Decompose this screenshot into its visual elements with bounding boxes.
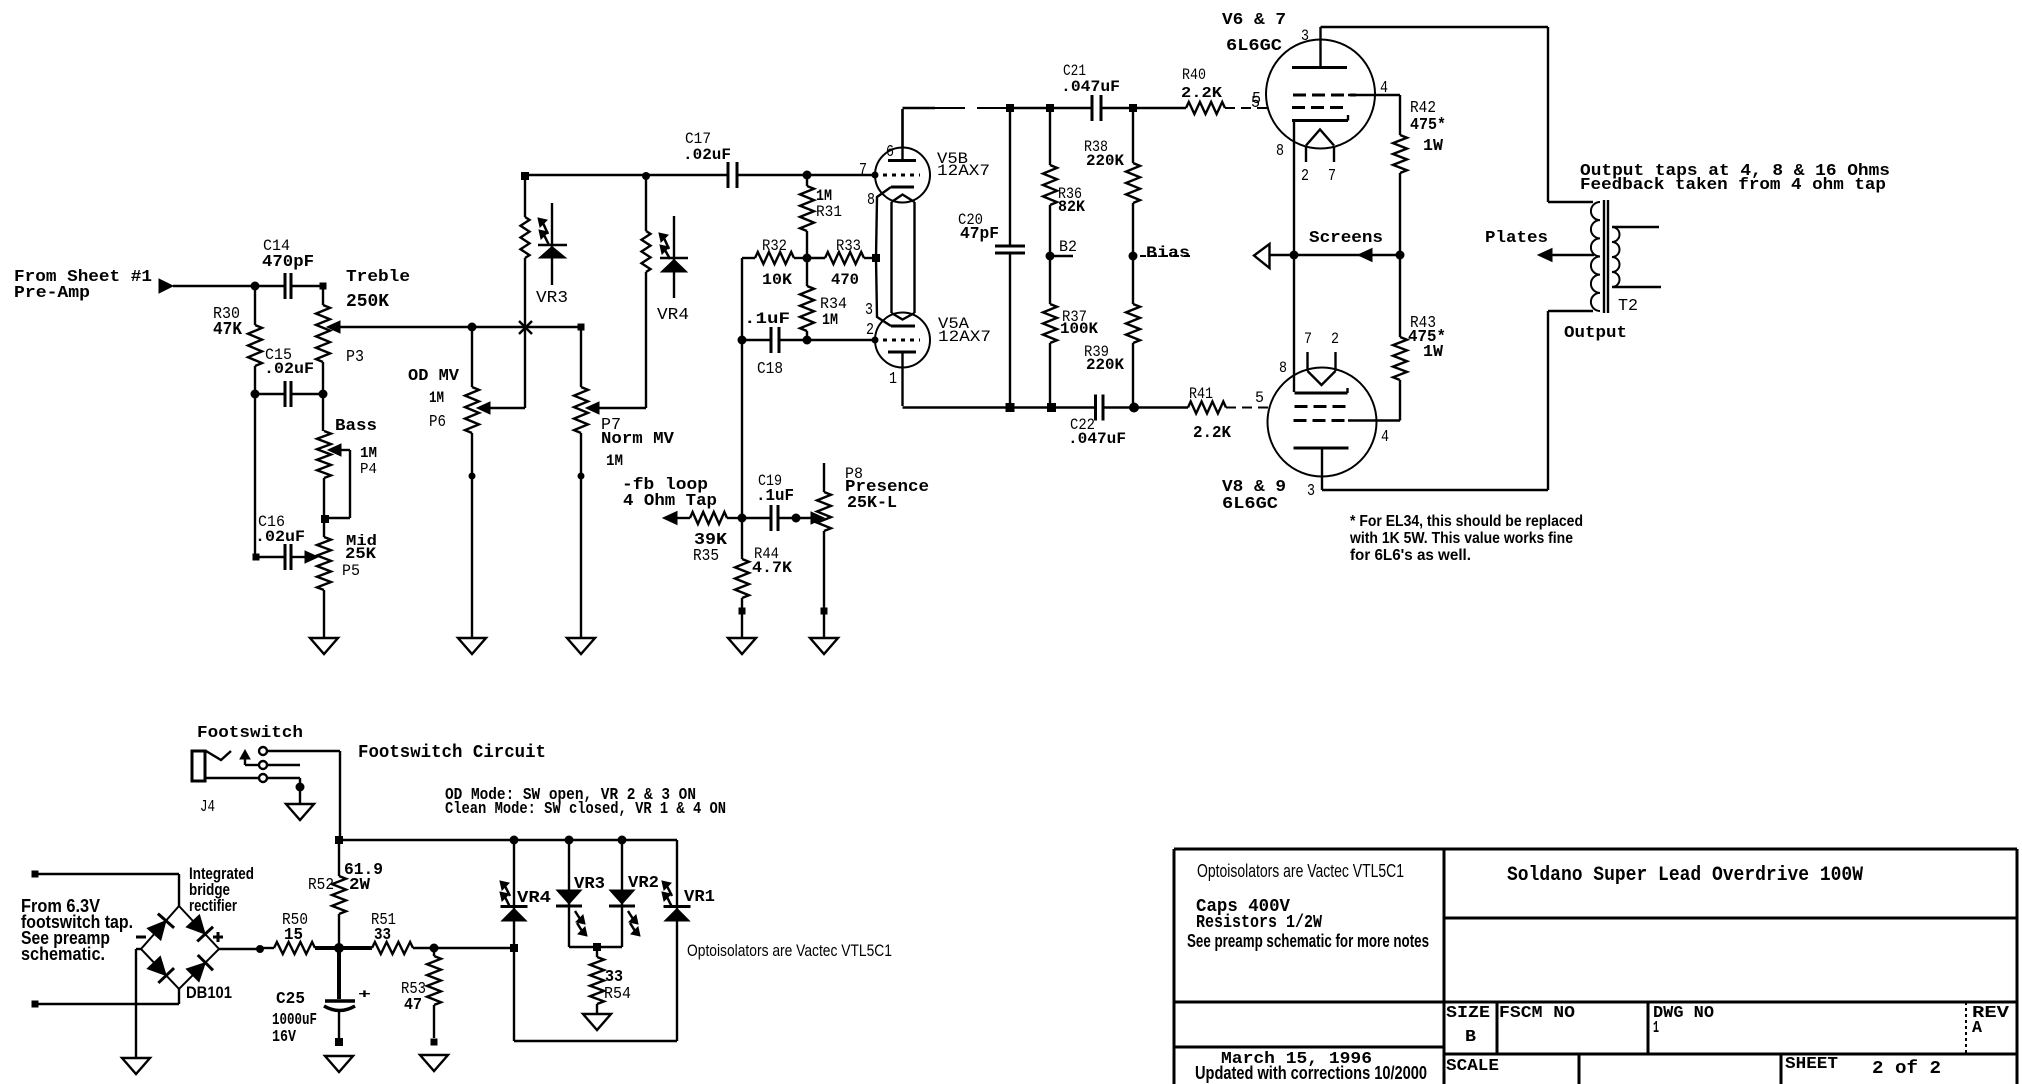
wire VR3 to P6 wiper	[490, 327, 525, 408]
wire C19 to P8 wiper	[778, 517, 811, 519]
svg-text:FSCM NO: FSCM NO	[1499, 1004, 1575, 1023]
svg-text:Clean Mode: SW closed, VR 1 &: Clean Mode: SW closed, VR 1 & 4 ON	[445, 800, 726, 819]
node C20 top	[1006, 104, 1014, 112]
capacitor C16	[255, 513, 305, 570]
svg-text:7: 7	[1328, 167, 1336, 186]
svg-text:VR4: VR4	[517, 889, 551, 908]
svg-text:220K: 220K	[1086, 356, 1124, 374]
resistor R31	[800, 175, 842, 258]
svg-text:R32: R32	[762, 237, 787, 255]
size label	[1446, 1004, 1490, 1047]
node R33/V5 cathodes	[872, 254, 880, 262]
svg-text:T2: T2	[1618, 297, 1638, 316]
cathode link wire	[1293, 121, 1295, 392]
svg-text:25K: 25K	[345, 545, 376, 563]
node P6 top	[468, 323, 477, 332]
svg-text:1M: 1M	[606, 452, 623, 470]
svg-text:4.7K: 4.7K	[752, 559, 792, 577]
wire VR3 to C17	[524, 174, 728, 176]
svg-text:1M: 1M	[822, 311, 838, 329]
wire V5A plate bottom	[903, 406, 1011, 408]
V6 pin labels	[1252, 27, 1388, 186]
bridge diode D2	[186, 915, 213, 942]
VR4 light arrows	[659, 233, 670, 259]
svg-text:OD MV: OD MV	[408, 367, 460, 386]
wire R30 node down to C16	[254, 394, 256, 557]
jack middle wire	[267, 764, 300, 766]
svg-text:2.2K: 2.2K	[1193, 424, 1232, 443]
transformer T2 secondary	[1612, 227, 1620, 287]
wire R36 junction	[1010, 107, 1092, 109]
node fb/R44/C19	[738, 514, 747, 523]
svg-text:Resistors 1/2W: Resistors 1/2W	[1196, 913, 1322, 933]
node C20 bottom	[1006, 403, 1015, 412]
node R31/R32/R33	[803, 254, 812, 263]
pentode V8 & 9	[1222, 352, 1377, 514]
svg-text:12AX7: 12AX7	[937, 162, 990, 180]
svg-text:VR1: VR1	[684, 888, 715, 907]
svg-text:47K: 47K	[213, 320, 242, 340]
wire P3 wiper to P6/P7	[340, 326, 581, 328]
node B2	[1046, 238, 1078, 261]
wire to C18	[742, 339, 771, 341]
svg-text:1W: 1W	[1423, 137, 1444, 156]
node C18 left	[738, 336, 747, 345]
triode V5B	[875, 109, 990, 258]
svg-text:VR2: VR2	[628, 874, 659, 893]
fb arrow	[663, 512, 690, 525]
svg-text:+: +	[358, 987, 371, 1002]
svg-text:.02uF: .02uF	[264, 360, 314, 378]
svg-text:220K: 220K	[1086, 152, 1124, 170]
resistor R40	[1181, 66, 1225, 114]
svg-text:33: 33	[374, 926, 391, 945]
optoisolator VR2 LED	[609, 840, 659, 947]
input arrow	[159, 279, 173, 293]
plates arrow	[1485, 229, 1594, 262]
top rail to transformer	[1321, 27, 1594, 202]
svg-text:P3: P3	[346, 348, 364, 367]
title block row4 line	[1174, 1047, 2017, 1054]
svg-text:1M: 1M	[360, 445, 377, 462]
svg-text:3: 3	[1301, 27, 1309, 45]
svg-text:SHEET: SHEET	[1785, 1055, 1838, 1074]
jack top wire	[267, 750, 340, 752]
wire to C15	[255, 393, 285, 395]
node screens line	[1290, 251, 1299, 260]
svg-text:R33: R33	[836, 237, 861, 255]
resistor R43	[1393, 255, 1446, 421]
jack tip spring	[206, 751, 231, 760]
potentiometer P7 Norm MV	[574, 327, 675, 638]
resistor R34	[800, 258, 847, 340]
node P7 mid dot	[578, 473, 585, 480]
wire C16 to P5 wiper	[291, 556, 306, 558]
resistor R38	[1084, 108, 1140, 256]
svg-text:R41: R41	[1189, 385, 1213, 403]
svg-text:15: 15	[284, 926, 303, 945]
node C25 bottom	[335, 1038, 343, 1046]
capacitor C15	[264, 346, 314, 407]
resistor R50	[260, 911, 339, 954]
pin 5 label V8	[1255, 389, 1264, 407]
node rail top	[335, 836, 343, 844]
capacitor C19	[756, 472, 794, 531]
resistor R39	[1084, 256, 1140, 408]
ground R44	[728, 638, 756, 654]
node A (input/R30/C14)	[251, 282, 260, 291]
title block line under title	[1444, 917, 2017, 920]
svg-text:47pF: 47pF	[960, 225, 999, 244]
svg-text:3: 3	[1307, 482, 1315, 501]
svg-text:See preamp schematic for more: See preamp schematic for more notes	[1187, 931, 1429, 951]
svg-text:5: 5	[1255, 389, 1264, 407]
resistor R41	[1188, 385, 1232, 443]
wire R41 to V8 grid	[1226, 407, 1269, 409]
title note caps	[1196, 897, 1290, 917]
V8 pin labels	[1279, 330, 1389, 501]
svg-text:5: 5	[1252, 90, 1261, 109]
potentiometer P6 OD MV	[408, 327, 479, 638]
bridge + output wire	[219, 948, 260, 950]
resistor R33	[807, 237, 876, 289]
transformer T2 core	[1604, 200, 1608, 313]
potentiometer P5 Mid	[317, 519, 377, 638]
capacitor C25	[272, 948, 371, 1047]
optoisolator VR1 LED	[664, 840, 716, 1041]
node VR4 top	[510, 836, 519, 845]
svg-text:Optoisolators are Vactec VTL5C: Optoisolators are Vactec VTL5C1	[1197, 861, 1404, 881]
svg-text:12AX7: 12AX7	[938, 328, 991, 346]
node R50 left	[256, 945, 264, 953]
svg-text:Bass: Bass	[335, 417, 377, 436]
svg-text:6: 6	[886, 143, 894, 162]
P5 wiper arrow	[305, 551, 318, 563]
svg-text:470: 470	[831, 271, 859, 289]
svg-text:VR4: VR4	[657, 306, 689, 325]
svg-text:10K: 10K	[762, 271, 792, 289]
wire C14 to P3	[291, 285, 323, 287]
svg-text:16V: 16V	[272, 1028, 297, 1047]
node R30/C15	[251, 390, 260, 399]
AC input top terminal	[32, 871, 39, 878]
P6 wiper arrow	[477, 402, 490, 414]
svg-text:1M: 1M	[429, 389, 444, 407]
svg-text:J4: J4	[200, 798, 215, 817]
node VR2 top	[618, 836, 627, 845]
ground P5	[310, 638, 338, 654]
P8 wiper arrow	[811, 512, 824, 524]
ground R54	[583, 1014, 611, 1030]
sheet label	[1785, 1055, 1941, 1079]
wire VR4 to P7 wiper	[599, 298, 646, 408]
jack J4 body	[192, 751, 215, 817]
potentiometer P3 Treble	[316, 268, 410, 394]
footswitch label	[197, 724, 303, 743]
svg-text:VR3: VR3	[574, 875, 605, 894]
capacitor C14	[262, 237, 314, 299]
P4 wiper loop wire	[325, 450, 350, 518]
P7 wiper arrow	[586, 402, 599, 414]
node R53 bottom	[431, 1039, 438, 1046]
svg-text:2W: 2W	[349, 876, 371, 895]
V8 screen wire pin4	[1348, 419, 1400, 421]
svg-text:R35: R35	[693, 547, 719, 566]
wire VR3-VR2 bottoms	[569, 946, 622, 948]
svg-text:6L6GC: 6L6GC	[1226, 37, 1282, 56]
wire node to C14	[255, 285, 285, 287]
svg-text:1: 1	[889, 370, 897, 389]
P3 wiper arrow	[327, 321, 340, 333]
dwg label	[1653, 1004, 1714, 1038]
svg-text:8: 8	[867, 191, 875, 210]
T2 labels	[1564, 297, 1638, 343]
VR1 light arrows fs	[662, 881, 672, 907]
svg-text:SIZE: SIZE	[1446, 1004, 1490, 1023]
date label	[1221, 1050, 1372, 1069]
node R53 top	[430, 944, 439, 953]
node C14/P3	[320, 283, 327, 290]
title note optoisolators	[1197, 861, 1404, 881]
node R36 top	[1046, 104, 1054, 112]
title block main horizontal	[1174, 1001, 2017, 1004]
svg-text:Feedback taken from 4 ohm tap: Feedback taken from 4 ohm tap	[1580, 176, 1886, 195]
svg-text:250K: 250K	[346, 292, 389, 312]
jack switch arrow	[240, 750, 259, 765]
V6 screen wire pin4	[1348, 94, 1400, 96]
wire input to C14	[173, 285, 255, 287]
node Bias	[1129, 244, 1193, 262]
svg-text:100K: 100K	[1060, 320, 1098, 338]
svg-text:47: 47	[404, 996, 422, 1015]
svg-text:.047uF: .047uF	[1061, 78, 1120, 96]
node V5A grid	[872, 337, 879, 344]
capacitor C17	[683, 130, 737, 188]
optoisolator VR3 LDR	[521, 172, 569, 327]
node screens/R42/R43	[1396, 251, 1405, 260]
node P8 bottom dot	[821, 608, 828, 615]
bottom rail to transformer	[1322, 311, 1593, 490]
svg-text:Norm MV: Norm MV	[601, 430, 675, 449]
svg-text:2 of 2: 2 of 2	[1872, 1059, 1941, 1079]
resistor R35	[690, 512, 742, 566]
optoisolator VR3 LED	[556, 840, 605, 947]
svg-text:7: 7	[859, 161, 867, 180]
svg-text:B2: B2	[1059, 238, 1077, 256]
svg-text:B: B	[1465, 1028, 1476, 1047]
svg-text:1: 1	[1653, 1019, 1659, 1038]
VR1 return wire	[514, 948, 677, 1041]
ground P6	[458, 638, 486, 654]
node J4 sleeve	[296, 783, 305, 792]
svg-text:4 Ohm Tap: 4 Ohm Tap	[623, 492, 717, 511]
optoisolator VR4 LED	[501, 840, 552, 948]
node main supply	[334, 943, 344, 953]
svg-text:Optoisolators are Vactec VTL5C: Optoisolators are Vactec VTL5C1	[687, 941, 892, 960]
resistor R30	[213, 286, 262, 394]
wire R40 to V6 grid	[1225, 107, 1268, 109]
updated label	[1195, 1063, 1427, 1083]
V5A pin labels	[865, 301, 897, 389]
svg-text:* For EL34, this should be re: * For EL34, this should be replaced	[1350, 513, 1583, 530]
svg-text:25K-L: 25K-L	[847, 494, 897, 513]
bridge labels	[186, 864, 254, 1002]
svg-text:DB101: DB101	[186, 983, 232, 1002]
V5B pin labels	[859, 143, 894, 210]
title block row4 verticals	[1579, 1054, 1781, 1084]
heater link wires	[892, 202, 915, 313]
bridge DB101 diamond	[141, 906, 219, 989]
node C21 right	[1129, 104, 1137, 112]
fscm label	[1499, 1004, 1575, 1023]
svg-text:Soldano Super Lead Overdrive 1: Soldano Super Lead Overdrive 100W	[1507, 864, 1863, 887]
node VR4 bottom	[510, 944, 518, 952]
resistor R53	[401, 948, 441, 1038]
svg-text:8: 8	[1279, 359, 1287, 377]
svg-text:P5: P5	[342, 562, 360, 580]
svg-text:6L6GC: 6L6GC	[1222, 495, 1278, 514]
resistor R42	[1393, 95, 1446, 255]
VR2 light arrows fs	[628, 911, 640, 936]
svg-text:Output: Output	[1564, 324, 1627, 343]
screens open arrow	[1254, 244, 1294, 268]
ground P8	[810, 638, 838, 654]
svg-text:for 6L6's as well.: for 6L6's as well.	[1350, 547, 1471, 564]
svg-text:rectifier: rectifier	[189, 896, 237, 915]
svg-text:.02uF: .02uF	[683, 146, 731, 164]
svg-text:2: 2	[1301, 167, 1309, 186]
svg-text:Footswitch: Footswitch	[197, 724, 303, 743]
svg-text:with 1K 5W. This value works: with 1K 5W. This value works fine	[1349, 530, 1573, 547]
svg-text:Bias: Bias	[1146, 244, 1190, 262]
wire bottom to C22	[1010, 406, 1095, 408]
capacitor C20	[958, 108, 1025, 408]
AC input bottom wire	[35, 989, 179, 1004]
svg-text:Footswitch Circuit: Footswitch Circuit	[358, 743, 546, 763]
transformer T2 primary	[1591, 202, 1600, 311]
svg-text:V6 & 7: V6 & 7	[1222, 11, 1286, 30]
optoisolator note fs	[687, 941, 892, 960]
VR3 light arrows	[538, 218, 549, 245]
svg-text:8: 8	[1276, 142, 1284, 161]
svg-text:2: 2	[1331, 330, 1339, 348]
resistor R52	[308, 840, 383, 948]
capacitor C22	[1068, 395, 1126, 449]
bridge diode D3	[147, 956, 174, 983]
svg-text:VR3: VR3	[536, 289, 568, 308]
svg-text:R40: R40	[1182, 66, 1206, 84]
bridge diode D4	[186, 955, 213, 982]
bridge polarity marks	[136, 932, 223, 942]
svg-text:Treble: Treble	[346, 268, 410, 287]
screens arrow	[1309, 229, 1383, 262]
P4 wiper arrow	[328, 444, 341, 456]
resistor R51	[339, 911, 434, 954]
node P6 mid dot	[469, 473, 476, 480]
scale label	[1446, 1057, 1499, 1076]
svg-text:SCALE: SCALE	[1446, 1057, 1499, 1076]
wire C15 to P3 bottom	[291, 393, 323, 395]
svg-text:R31: R31	[816, 203, 842, 221]
capacitor C18	[744, 310, 790, 379]
input from sheet 1	[14, 268, 152, 303]
title note resistors	[1196, 913, 1322, 933]
node P7 top	[578, 324, 585, 331]
svg-text:C25: C25	[276, 990, 305, 1009]
node R54 top	[593, 943, 601, 951]
ground P7	[567, 638, 595, 654]
node C22 left	[1047, 403, 1056, 412]
AC input bottom terminal	[32, 1001, 39, 1008]
optoisolator VR4 LDR	[642, 172, 690, 325]
title note see preamp	[1187, 931, 1429, 951]
wire C18 left down to fb node	[741, 340, 743, 518]
bridge minus ground	[122, 949, 150, 1074]
fb loop label	[622, 476, 717, 511]
svg-text:P6: P6	[429, 413, 446, 432]
svg-text:470pF: 470pF	[262, 253, 314, 272]
capacitor C21	[1061, 62, 1120, 121]
footswitch circuit label	[358, 743, 546, 763]
svg-text:P4: P4	[360, 461, 377, 478]
resistor R36	[1043, 108, 1085, 256]
VR3 light arrows fs	[575, 911, 587, 936]
svg-text:R54: R54	[604, 985, 631, 1004]
svg-text:R52: R52	[308, 876, 334, 895]
wire to C16	[255, 556, 285, 558]
output taps note	[1580, 162, 1890, 195]
rev label	[1972, 1004, 2010, 1038]
node C16 left	[253, 554, 260, 561]
potentiometer P8 Presence	[817, 463, 929, 638]
EL34 note	[1349, 513, 1583, 564]
svg-text:C18: C18	[757, 360, 783, 379]
pin 5 label V6	[1251, 94, 1260, 113]
svg-text:1W: 1W	[1423, 343, 1444, 362]
pentode V6 & 7	[1222, 11, 1375, 162]
wire C22 to R41	[1103, 406, 1188, 408]
svg-text:Pre-Amp: Pre-Amp	[14, 284, 90, 303]
title block row3 verticals	[1497, 1002, 1966, 1054]
svg-text:.1uF: .1uF	[756, 487, 794, 506]
screens wire	[1294, 254, 1400, 256]
AC input top wire	[35, 874, 179, 906]
node V5B grid	[872, 172, 879, 179]
svg-text:schematic.: schematic.	[21, 944, 105, 964]
node C18 right	[803, 336, 812, 345]
wire to J4 ground	[299, 790, 301, 804]
svg-text:7: 7	[1304, 330, 1312, 348]
svg-text:2: 2	[866, 321, 874, 340]
resistor R32	[742, 237, 807, 289]
node P4/P5	[321, 515, 329, 523]
VR4 light arrows fs	[500, 881, 510, 907]
mode note	[445, 786, 726, 819]
title block divider vertical	[1443, 849, 1446, 1084]
wire R32 left down	[741, 258, 743, 340]
resistor R37	[1043, 256, 1098, 408]
title block border	[1174, 849, 2017, 1084]
title text	[1507, 864, 1863, 887]
svg-text:4: 4	[1381, 428, 1389, 447]
wire V5B plate top	[903, 108, 936, 148]
crossing X (VR3 line over wire)	[519, 321, 532, 334]
svg-text:.1uF: .1uF	[744, 310, 790, 328]
node R31 top	[803, 171, 812, 180]
wire C18 to V5A grid	[779, 339, 875, 341]
svg-text:475*: 475*	[1410, 116, 1446, 135]
top wire dashed segs	[935, 107, 1092, 109]
